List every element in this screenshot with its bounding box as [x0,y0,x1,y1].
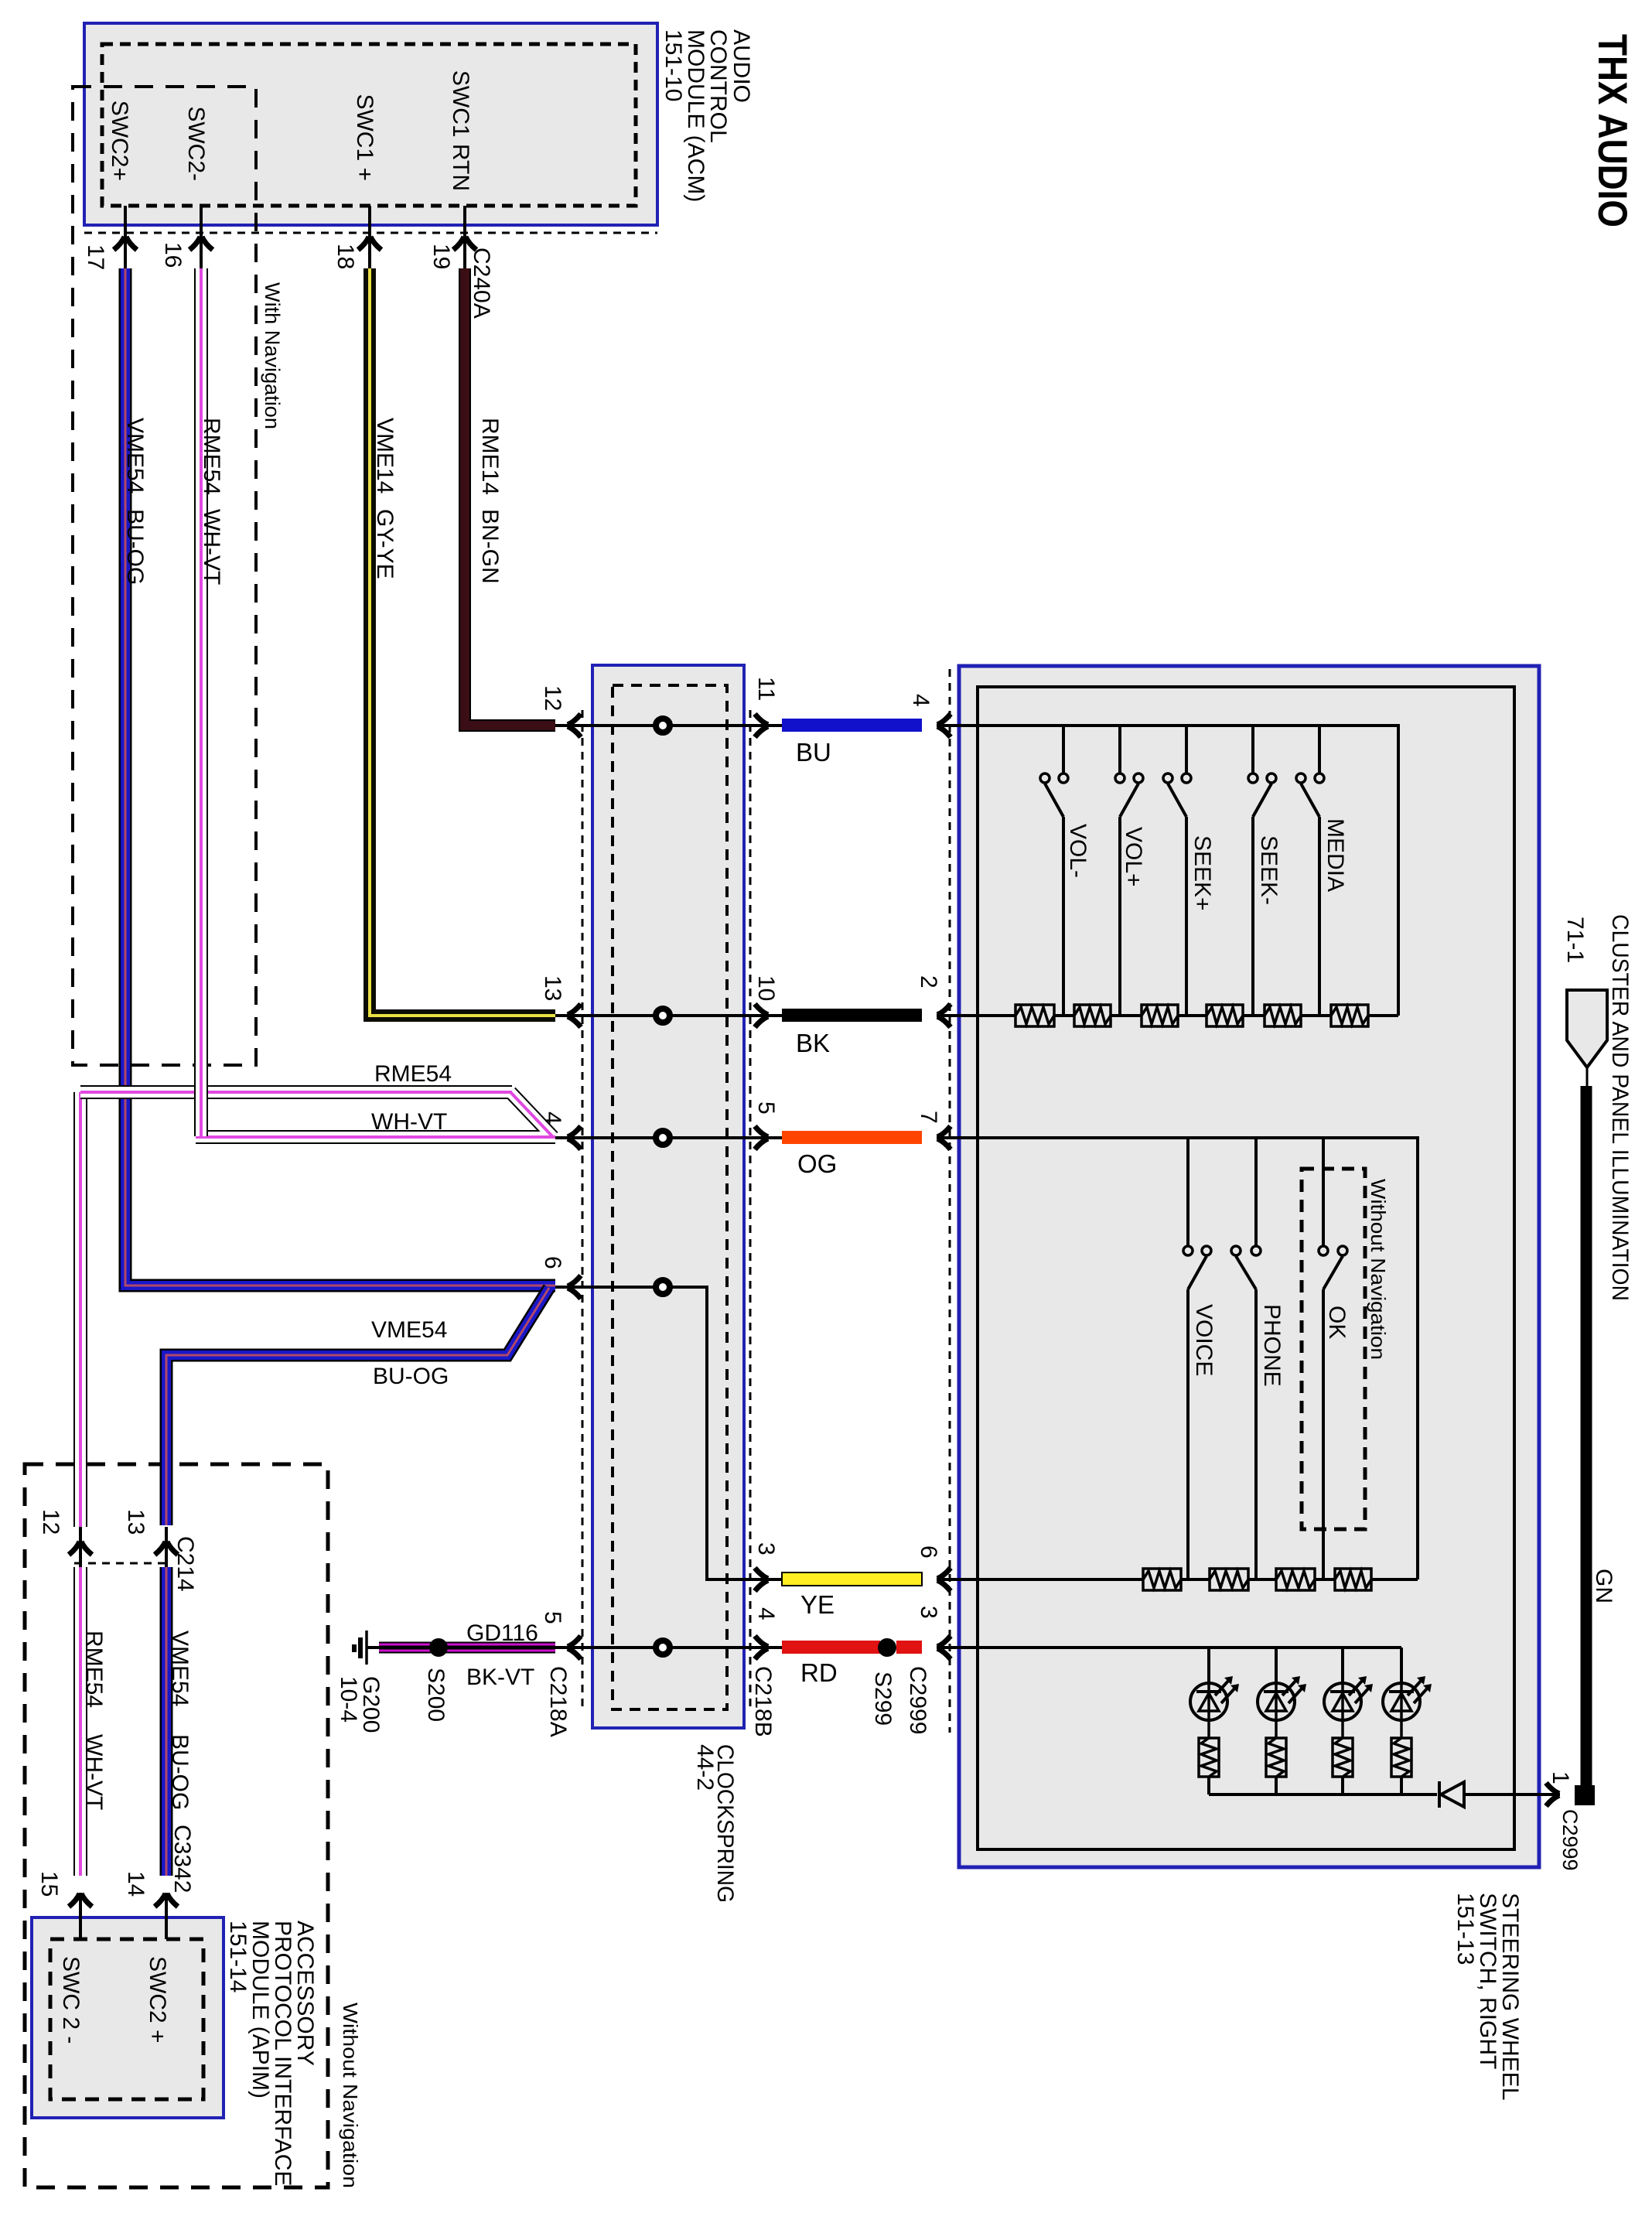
label CLOCKSPRING 44-2 [692,1744,738,1903]
svg-text:5: 5 [753,1101,779,1115]
switch pin number 2 [916,975,941,989]
svg-text:14: 14 [123,1871,148,1897]
wire RD illumination bus [947,1646,1401,1649]
clockspring inner dashed outline [613,685,727,1709]
label ACCESSORY PROTOCOL INTERFACE MODULE (APIM) 151-14 [225,1921,318,2186]
svg-text:13: 13 [123,1509,148,1535]
svg-text:7: 7 [916,1111,941,1124]
svg-text:BN-GN: BN-GN [477,509,503,584]
pin 6 arrow C218A [567,1275,582,1299]
pin 12 arrow C218A [567,714,582,737]
pin 17 arrow C240A [114,236,137,251]
circuit label VME54 pin17 [122,418,148,493]
svg-text:5: 5 [540,1611,565,1624]
wire YE resistor chain line [947,1578,1418,1581]
label Without Navigation bottom [339,2003,362,2188]
clockspring pin number 12 [540,685,565,711]
connector label C218B [750,1666,776,1737]
svg-text:1: 1 [1548,1771,1573,1784]
pin 6 arrow C2999 [937,1568,952,1591]
svg-text:CLUSTER AND PANEL ILLUMINATION: CLUSTER AND PANEL ILLUMINATION [1607,914,1633,1301]
svg-text:4: 4 [540,1111,565,1125]
pin 5 arrow C218B [753,1126,769,1149]
svg-text:BU-OG: BU-OG [373,1364,449,1389]
svg-text:OG: OG [797,1149,837,1178]
svg-text:With Navigation: With Navigation [261,282,284,429]
circuit label BK-VT [466,1665,534,1690]
switch pin number 7 [916,1111,941,1124]
svg-text:6: 6 [540,1256,565,1269]
svg-text:18: 18 [333,244,358,269]
wire BU bus inside switch [947,726,1398,1016]
svg-text:BK-VT: BK-VT [466,1665,534,1690]
svg-text:SWC1 +: SWC1 + [352,94,377,181]
svg-text:12: 12 [540,685,565,711]
svg-text:RME54: RME54 [81,1631,107,1708]
wire color label BK [796,1029,830,1057]
wire color label YE [800,1590,835,1619]
pin 7 arrow C2999 [937,1126,952,1149]
svg-text:SWC2-: SWC2- [183,106,209,181]
svg-text:151-14: 151-14 [225,1921,251,1993]
svg-text:BU: BU [796,738,831,767]
svg-text:VME54: VME54 [122,418,148,493]
pin 2 arrow C2999 [937,1004,952,1027]
switch OK [1319,1138,1350,1579]
circuit label RME54 horizontal [374,1061,452,1087]
svg-text:SEEK+: SEEK+ [1190,835,1215,911]
label Without Navigation OK box [1367,1179,1390,1360]
svg-text:VOL-: VOL- [1065,824,1091,878]
clockspring pin number 10 [753,975,779,1001]
circuit label RME54 pin16 [199,418,224,495]
wire ACM pin 19 stub [463,206,466,271]
circuit label VME54 horizontal [371,1317,447,1343]
pin 11 arrow C218B [753,714,769,737]
svg-text:VME14: VME14 [372,418,398,493]
splice ring row4 [656,1280,670,1294]
resistor LED 4 [1391,1738,1411,1777]
svg-text:PHONE: PHONE [1259,1304,1285,1387]
LED illumination 3 [1324,1648,1373,1738]
resistor upper chain 4 [1207,1005,1243,1026]
pin 10 arrow C218B [753,1004,769,1027]
svg-text:13: 13 [540,975,565,1001]
label With Navigation [261,282,284,429]
switch VOL- [1040,726,1091,1016]
connector C240A face line [84,232,657,234]
pin label SWC1 + [352,94,377,181]
svg-text:C218B: C218B [750,1666,776,1737]
svg-text:VME54: VME54 [167,1631,193,1706]
switch MEDIA [1296,726,1348,1016]
splice label S299 [870,1672,896,1726]
svg-text:Without Navigation: Without Navigation [1367,1179,1390,1360]
wire OG bus inside switch [947,1138,1418,1579]
wire clockspring row pin12-11 [554,724,782,727]
svg-text:10-4: 10-4 [336,1676,361,1723]
wire color label RD [800,1658,838,1687]
wire label GN [1591,1569,1616,1603]
circuit label GD116 [466,1620,538,1646]
pin 3 arrow C218B [753,1568,769,1591]
svg-text:10: 10 [753,975,779,1001]
resistor lower chain 1 [1143,1569,1181,1590]
svg-text:VOL+: VOL+ [1121,827,1146,887]
svg-text:12: 12 [38,1509,63,1535]
connector label C214 [172,1536,198,1592]
connector label C3342 [169,1825,195,1893]
resistor lower chain 3 [1276,1569,1315,1590]
wire BK clockspring pin 10 to switch pin 2 [782,1009,922,1022]
wire VME14 GY-YE from ACM pin 18 to clockspring pin 13 [370,268,555,1016]
circuit label VME14 pin18 [372,418,398,493]
switch SEEK- [1248,726,1282,1016]
connector label C2999 at pin 1 [1558,1809,1582,1871]
pin label SWC2 + [145,1956,170,2044]
svg-text:C214: C214 [172,1536,198,1592]
wire clockspring row pin6-3 jog [554,1287,782,1579]
svg-text:VME54: VME54 [371,1317,447,1343]
circuit label GY-YE pin18 [372,509,398,579]
wire GD116 BK-VT from G200 to clockspring pin 5 [366,1646,555,1649]
resistor LED 2 [1266,1738,1286,1777]
svg-text:71-1: 71-1 [1562,917,1588,963]
svg-text:SWC1 RTN: SWC1 RTN [448,70,473,191]
clockspring pin number 3 right [753,1542,779,1555]
svg-text:SWC2 +: SWC2 + [145,1956,170,2044]
wire RD clockspring pin 4 to switch pin 3 [782,1641,922,1654]
Without Navigation dashed region box (bottom left) [25,1464,328,2187]
connector C214 face line [74,1562,172,1565]
svg-text:19: 19 [428,244,454,269]
svg-text:AUDIO: AUDIO [729,29,754,103]
pin 13 arrow C218A [567,1004,582,1027]
pin 19 arrow C240A [453,236,476,251]
svg-text:GN: GN [1591,1569,1616,1603]
wire RME14 BN-GN from ACM pin 19 to clockspring pin 12 [465,268,555,726]
pin label SWC2- [183,106,209,181]
ground label G200 [358,1676,384,1733]
clockspring pin number 4 right [753,1607,779,1620]
resistor upper chain 6 [1331,1005,1368,1026]
pin 18 arrow C240A [358,236,381,251]
diode in illumination return [1439,1781,1464,1808]
svg-text:WH-VT: WH-VT [371,1109,447,1135]
clockspring module box (CLOCKSPRING 44-2) [592,665,744,1728]
svg-text:WH-VT: WH-VT [199,509,224,585]
pin 4 arrow C218A [567,1126,582,1149]
splice ring row3 [656,1131,670,1145]
pin 15 arrow C3342 [69,1893,92,1939]
pin 12 arrow C214 [69,1527,92,1567]
svg-text:C218A: C218A [545,1666,571,1737]
circuit label WH-VT on APIM branch [81,1734,107,1810]
circuit label VME54 on APIM branch [167,1631,193,1706]
splice S200 [429,1638,448,1657]
svg-text:OK: OK [1324,1306,1350,1339]
accessory protocol interface module box (APIM 151-14) [32,1917,224,2118]
resistor lower chain 2 [1210,1569,1248,1590]
switch VOL+ [1115,726,1146,1016]
wire color label BU [796,738,831,767]
svg-text:C240A: C240A [469,248,494,319]
resistor upper chain 1 [1015,1005,1054,1026]
resistor LED 1 [1199,1738,1219,1777]
label STEERING WHEEL SWITCH RIGHT 151-13 [1452,1893,1523,2100]
pin number 18 [333,244,358,269]
switch VOICE [1183,1138,1217,1579]
resistor upper chain 2 [1074,1005,1111,1026]
svg-text:S200: S200 [423,1668,449,1722]
pin label SWC1 RTN [448,70,473,191]
connector label C218A [545,1666,571,1737]
svg-text:C3342: C3342 [169,1825,195,1893]
clockspring pin number 5 left [540,1611,565,1624]
wire OG clockspring pin 5 to switch pin 7 [782,1131,922,1144]
svg-text:C2999: C2999 [905,1666,930,1734]
circuit label BU-OG on APIM branch [167,1734,193,1810]
steering wheel switch module box (STEERING WHEEL SWITCH, RIGHT 151-13) [959,666,1539,1867]
svg-text:MEDIA: MEDIA [1323,818,1348,892]
circuit label WH-VT pin16 [199,509,224,585]
splice ring row2 [656,1009,670,1023]
svg-text:3: 3 [753,1542,779,1555]
splice label S200 [423,1668,449,1722]
wire ACM pin 16 stub [200,206,203,271]
pin 4 arrow C218B [753,1636,769,1659]
resistor lower chain 4 [1335,1569,1371,1590]
title THX AUDIO [1589,34,1635,227]
svg-text:BK: BK [796,1029,830,1057]
clockspring pin number 5 right [753,1101,779,1115]
svg-text:151-10: 151-10 [660,29,686,101]
svg-text:2: 2 [916,975,941,989]
circuit label BU-OG pin17 [122,509,148,585]
pin number 1 C2999 [1548,1771,1573,1784]
svg-text:BU-OG: BU-OG [167,1734,193,1810]
svg-text:SWC 2 -: SWC 2 - [58,1956,84,2044]
clockspring pin number 6 left [540,1256,565,1269]
wire VME54 BU-OG from ACM pin 17 to clockspring pin 6 and APIM branch [125,268,555,1876]
ground label 10-4 [336,1676,361,1723]
clockspring pin number 11 [753,677,779,701]
svg-text:GY-YE: GY-YE [372,509,398,579]
switch PHONE [1231,1138,1285,1579]
connector symbol CLUSTER AND PANEL ILLUMINATION 71-1 [1567,990,1607,1086]
LED illumination 2 [1258,1648,1306,1738]
audio control module box (ACM 151-10) [84,23,657,225]
connector C218B face line [749,710,752,1709]
wire clockspring row pin13-10 [554,1014,782,1017]
svg-text:RME54: RME54 [199,418,224,495]
svg-text:RME54: RME54 [374,1061,452,1087]
wire ACM pin 18 stub [368,206,371,271]
LED illumination 4 [1383,1648,1432,1738]
svg-text:SEEK-: SEEK- [1256,835,1282,905]
pin number 12 C214 [38,1509,63,1535]
svg-text:C2999: C2999 [1558,1809,1582,1871]
wire clockspring row pin5-4 [554,1646,782,1649]
pin 3 arrow C2999 [937,1636,952,1659]
wire RME54 WH-VT from ACM pin 16 to clockspring pin 4 and APIM branch [80,268,555,1876]
svg-text:WH-VT: WH-VT [81,1734,107,1810]
pin 13 arrow C214 [155,1527,178,1567]
wire color label OG [797,1149,837,1178]
switch pin number 3 [916,1606,941,1619]
svg-text:11: 11 [753,677,779,701]
clockspring pin number 4 left [540,1111,565,1125]
pin 4 arrow C2999 [937,714,952,737]
svg-text:15: 15 [36,1871,62,1897]
wire BU clockspring pin 11 to switch pin 4 [782,719,922,732]
svg-text:VOICE: VOICE [1191,1304,1217,1376]
circuit label RME14 pin19 [477,418,503,495]
svg-text:44-2: 44-2 [692,1744,718,1791]
switch pin number 4 [908,694,934,707]
pin label SWC2+ [107,101,132,181]
label CLUSTER AND PANEL ILLUMINATION 71-1 [1562,914,1633,1301]
pin 16 arrow C240A [189,236,213,251]
connector C218A face line [582,710,584,1709]
wire clockspring row pin4-5 [554,1136,782,1139]
svg-text:3: 3 [916,1606,941,1619]
ACM connector dashed outline [102,44,636,206]
pin 5 arrow C218A [567,1636,582,1659]
circuit label WH-VT horizontal [371,1109,447,1135]
splice S299 [878,1638,896,1657]
svg-text:151-13: 151-13 [1452,1893,1478,1965]
pin 1 arrow C2999 [1544,1783,1560,1806]
label AUDIO CONTROL MODULE (ACM) 151-10 [660,29,754,202]
svg-text:RD: RD [800,1658,838,1687]
svg-text:6: 6 [916,1545,941,1559]
switch SEEK+ [1163,726,1215,1016]
svg-text:Without Navigation: Without Navigation [339,2003,362,2188]
steering wheel switch inner outline [978,687,1514,1849]
Without Navigation dashed box around OK switch [1302,1169,1365,1529]
svg-text:17: 17 [83,244,108,270]
svg-text:BU-OG: BU-OG [122,509,148,585]
LED illumination 1 [1190,1648,1239,1738]
pin number 19 [428,244,454,269]
svg-text:RME14: RME14 [477,418,503,495]
svg-text:THX AUDIO: THX AUDIO [1589,34,1635,227]
svg-text:SWC2+: SWC2+ [107,101,132,181]
wire GN cluster illumination feed [1575,1086,1595,1805]
wire YE clockspring pin 3 to switch pin 6 [782,1572,922,1586]
wire BK resistor chain line [947,1014,1398,1017]
pin number 17 [83,244,108,270]
wire LED bottom bus [1209,1777,1546,1794]
resistor upper chain 3 [1142,1005,1178,1026]
svg-text:S299: S299 [870,1672,896,1726]
pin 14 arrow C3342 [155,1893,178,1939]
ground G200 symbol [354,1631,367,1665]
pin number 16 [160,242,186,268]
resistor upper chain 5 [1265,1005,1301,1026]
circuit label RME54 on APIM branch [81,1631,107,1708]
svg-text:GD116: GD116 [466,1620,538,1646]
resistor LED 3 [1333,1738,1353,1777]
connector label C240A [469,248,494,319]
svg-text:16: 16 [160,242,186,268]
pin label SWC 2 - [58,1956,84,2044]
pin number 14 C3342 [123,1871,148,1897]
splice ring row1 [656,719,670,732]
circuit label BN-GN pin19 [477,509,503,584]
wire ACM pin 17 stub [124,206,127,271]
pin number 13 C214 [123,1509,148,1535]
svg-text:4: 4 [753,1607,779,1620]
connector label C2999 at S299 [905,1666,930,1734]
pin number 15 C3342 [36,1871,62,1897]
connector C2999 face line [949,669,951,1733]
svg-text:YE: YE [800,1590,835,1619]
splice ring row5 [656,1641,670,1654]
With Navigation dashed region box [73,87,256,1065]
clockspring pin number 13 [540,975,565,1001]
switch pin number 6 [916,1545,941,1559]
APIM connector dashed outline [50,1939,203,2099]
circuit label BU-OG horizontal [373,1364,449,1389]
svg-text:4: 4 [908,694,934,707]
